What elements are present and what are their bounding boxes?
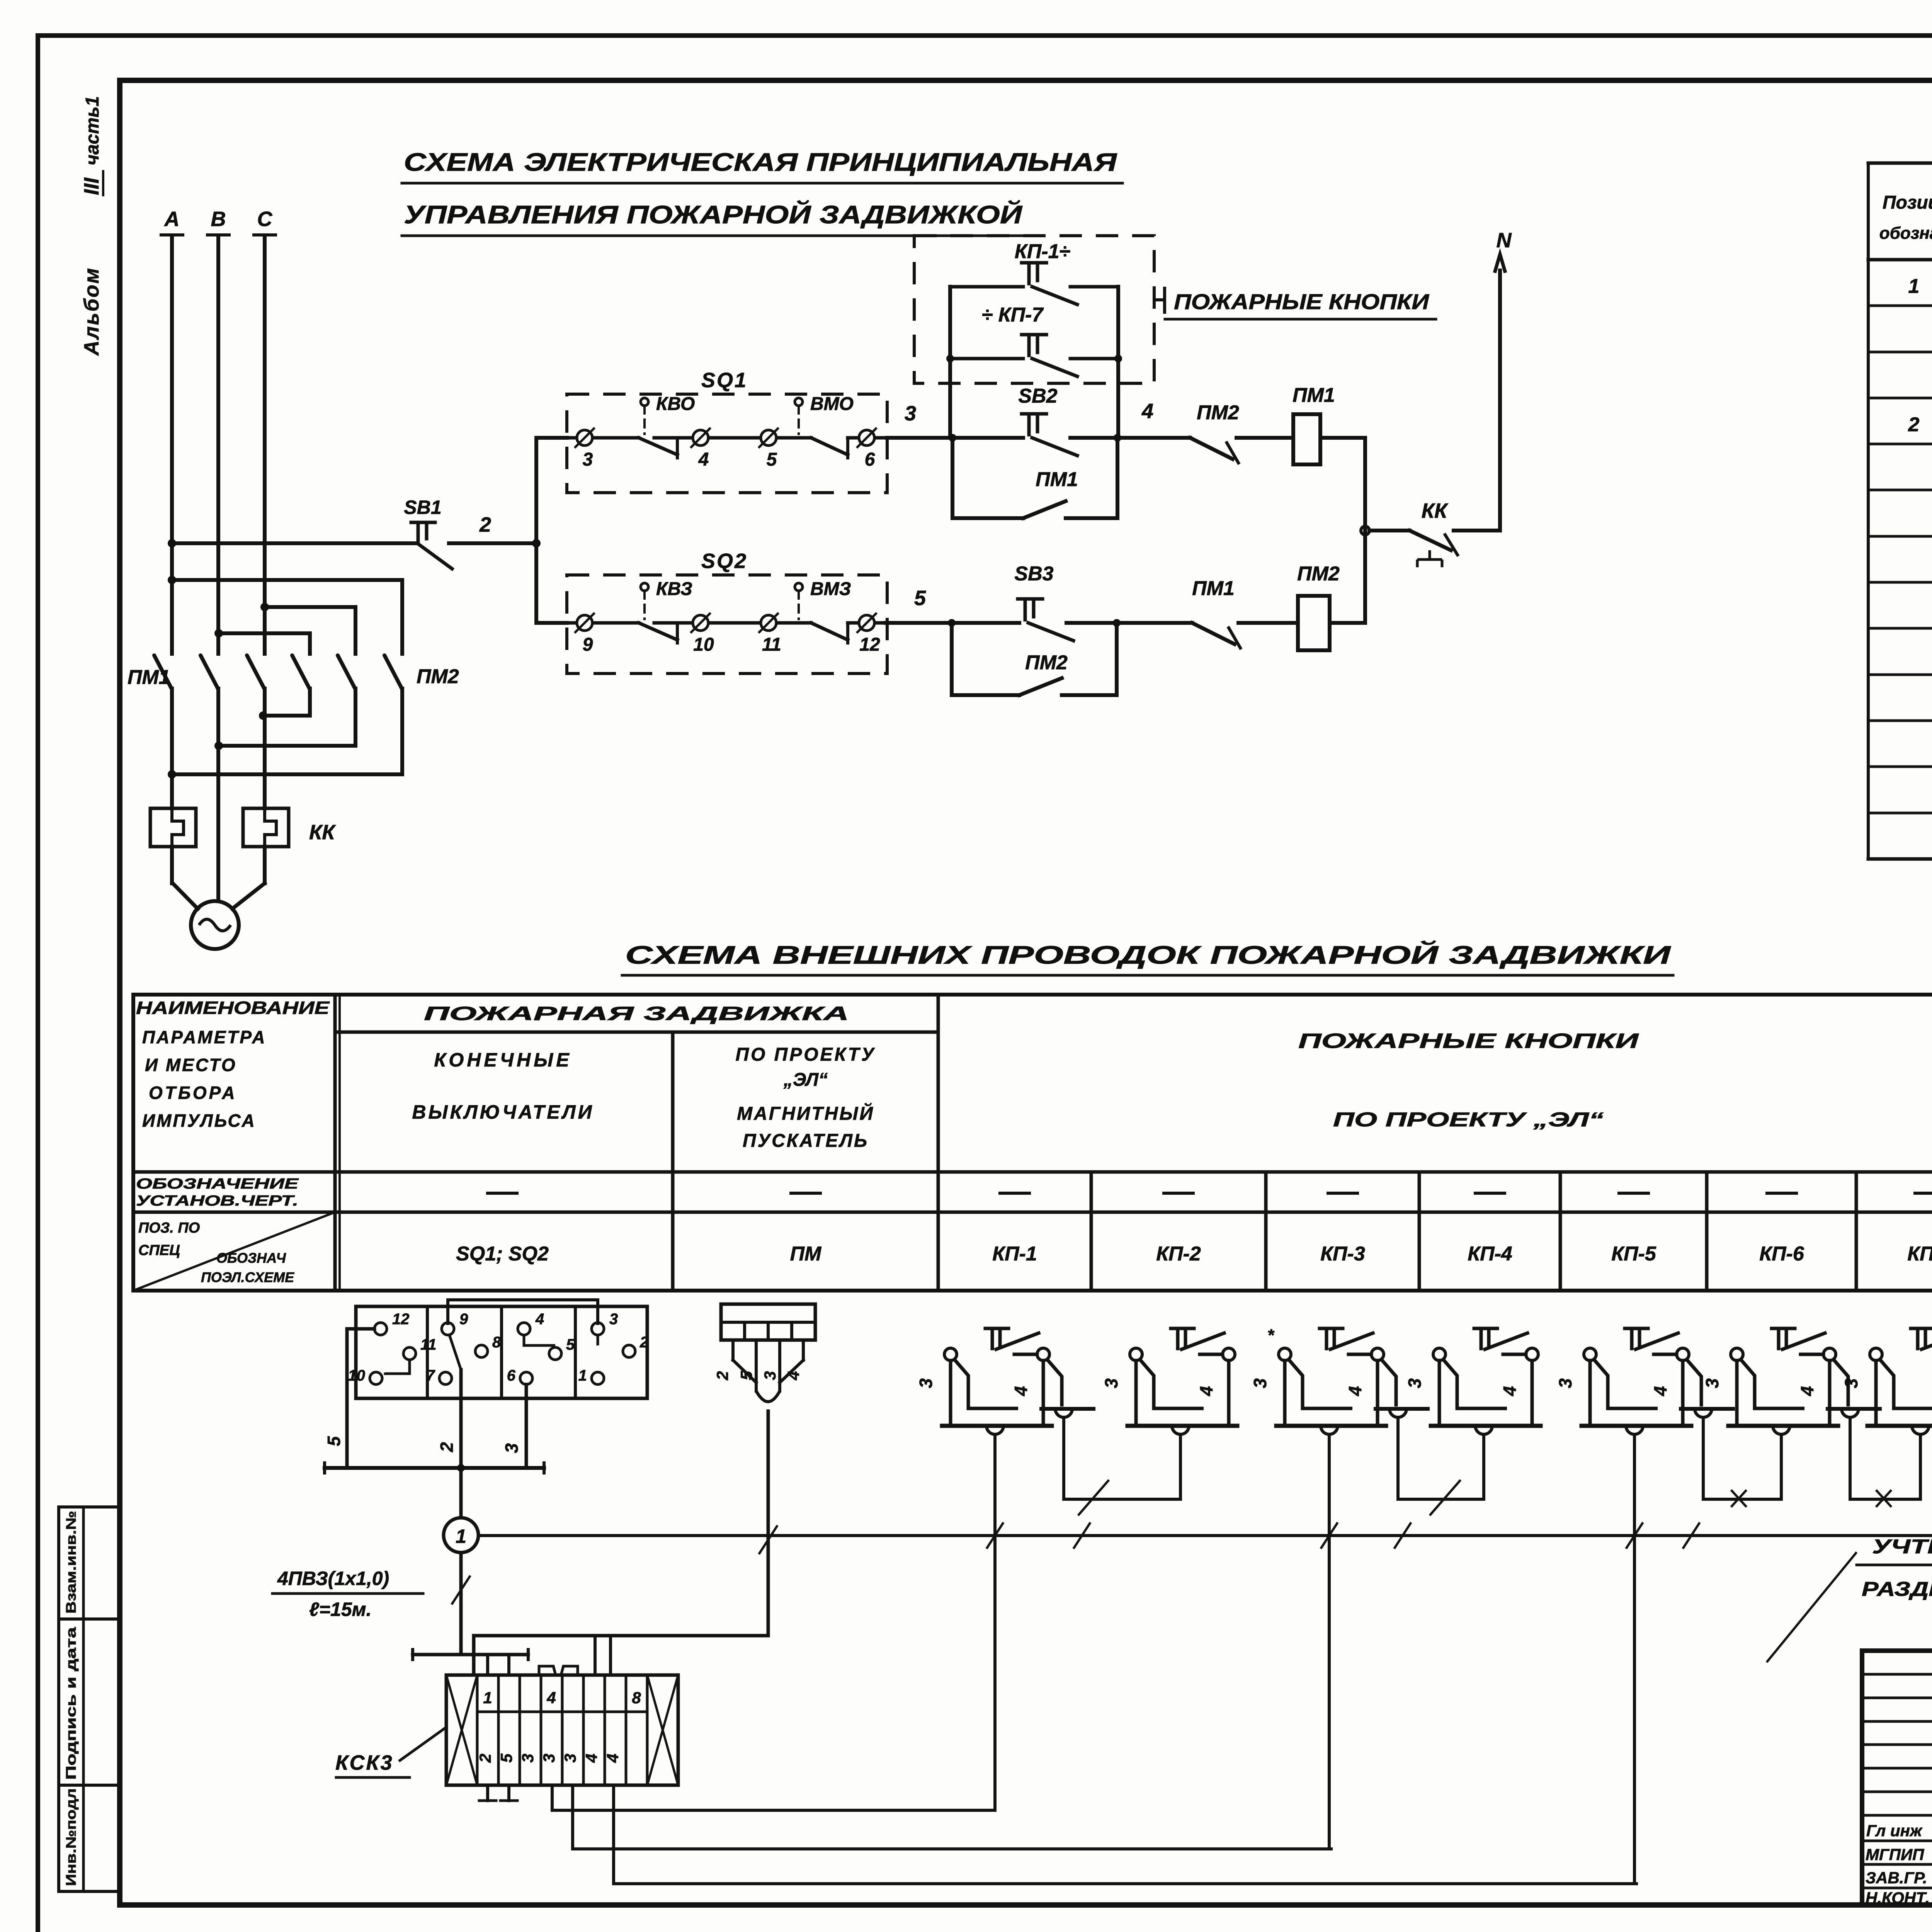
svg-text:ВМО: ВМО — [810, 394, 854, 414]
svg-text:4: 4 — [535, 1311, 544, 1328]
svg-text:9: 9 — [583, 634, 593, 655]
svg-text:4: 4 — [1345, 1386, 1365, 1396]
svg-text:9: 9 — [459, 1311, 468, 1328]
svg-text:КК: КК — [309, 821, 336, 844]
svg-text:Позиц.: Позиц. — [1883, 192, 1932, 213]
svg-text:1: 1 — [456, 1526, 466, 1547]
svg-text:ПОЖАРНЫЕ КНОПКИ: ПОЖАРНЫЕ КНОПКИ — [1174, 289, 1430, 314]
svg-text:УЧТЕНО В: УЧТЕНО В — [1872, 1536, 1932, 1558]
svg-text:3: 3 — [916, 1378, 936, 1388]
svg-text:ПМ1: ПМ1 — [128, 666, 170, 689]
svg-text:ПМ1: ПМ1 — [1036, 468, 1078, 491]
svg-text:КП-1: КП-1 — [992, 1243, 1037, 1265]
svg-text:А: А — [164, 207, 180, 231]
svg-text:SB2: SB2 — [1018, 385, 1057, 407]
svg-text:Инв.№подл: Инв.№подл — [63, 1788, 79, 1886]
svg-text:УСТАНОВ.ЧЕРТ.: УСТАНОВ.ЧЕРТ. — [136, 1193, 298, 1209]
svg-text:3: 3 — [502, 1443, 522, 1453]
svg-text:3: 3 — [1702, 1378, 1722, 1388]
svg-text:2: 2 — [713, 1371, 731, 1380]
svg-text:ВЫКЛЮЧАТЕЛИ: ВЫКЛЮЧАТЕЛИ — [412, 1101, 594, 1123]
svg-text:2: 2 — [476, 1753, 494, 1763]
svg-text:ВМЗ: ВМЗ — [810, 579, 851, 599]
svg-text:5: 5 — [737, 1371, 755, 1380]
svg-text:РАЗДЕЛЕ „ЭЛ“: РАЗДЕЛЕ „ЭЛ“ — [1862, 1578, 1932, 1600]
svg-text:3: 3 — [1101, 1378, 1121, 1388]
svg-text:4: 4 — [1797, 1386, 1817, 1396]
svg-text:SQ1: SQ1 — [701, 369, 748, 392]
svg-text:ЗАВ.ГР.: ЗАВ.ГР. — [1866, 1869, 1927, 1887]
svg-text:Взам.инв.№: Взам.инв.№ — [63, 1511, 79, 1614]
svg-text:Гл инж: Гл инж — [1866, 1821, 1923, 1840]
svg-text:1: 1 — [578, 1367, 587, 1384]
svg-text:КП-3: КП-3 — [1320, 1243, 1365, 1265]
svg-text:СПЕЦ: СПЕЦ — [138, 1242, 180, 1259]
svg-text:КП-4: КП-4 — [1468, 1243, 1512, 1265]
svg-text:SB3: SB3 — [1014, 563, 1053, 585]
svg-text:N: N — [1497, 229, 1512, 252]
svg-text:НАИМЕНОВАНИЕ: НАИМЕНОВАНИЕ — [136, 998, 330, 1018]
svg-text:ПМ2: ПМ2 — [1297, 563, 1340, 585]
svg-text:2: 2 — [1908, 413, 1920, 436]
svg-text:10: 10 — [348, 1367, 366, 1384]
svg-text:Н.КОНТ.: Н.КОНТ. — [1866, 1889, 1930, 1907]
svg-text:3: 3 — [905, 402, 916, 425]
svg-text:КП-7: КП-7 — [1907, 1243, 1932, 1265]
svg-text:12: 12 — [859, 634, 880, 655]
svg-text:4: 4 — [546, 1689, 556, 1707]
svg-text:3: 3 — [761, 1371, 779, 1380]
svg-text:ИМПУЛЬСА: ИМПУЛЬСА — [142, 1111, 256, 1131]
svg-text:3: 3 — [561, 1753, 579, 1762]
svg-text:ОТБОРА: ОТБОРА — [149, 1083, 237, 1103]
svg-text:5: 5 — [497, 1753, 515, 1763]
svg-text:СХЕМА ЭЛЕКТРИЧЕСКАЯ ПРИНЦИПИАЛ: СХЕМА ЭЛЕКТРИЧЕСКАЯ ПРИНЦИПИАЛЬНАЯ — [404, 148, 1117, 176]
svg-text:3: 3 — [1250, 1378, 1270, 1388]
svg-text:3: 3 — [540, 1753, 558, 1762]
svg-text:8: 8 — [492, 1334, 501, 1351]
svg-text:4: 4 — [1500, 1386, 1520, 1396]
svg-text:ПО ПРОЕКТУ „ЭЛ“: ПО ПРОЕКТУ „ЭЛ“ — [1333, 1109, 1604, 1131]
svg-text:5: 5 — [566, 1336, 575, 1353]
svg-text:SQ1; SQ2: SQ1; SQ2 — [456, 1243, 549, 1265]
svg-text:КВО: КВО — [656, 394, 695, 414]
svg-text:3: 3 — [1841, 1378, 1861, 1388]
svg-text:КСК3: КСК3 — [335, 1751, 394, 1774]
svg-text:5: 5 — [324, 1436, 344, 1446]
svg-text:÷ КП-7: ÷ КП-7 — [982, 304, 1044, 326]
svg-text:КК: КК — [1422, 499, 1449, 522]
svg-text:4: 4 — [1141, 400, 1153, 423]
svg-text:ПУСКАТЕЛЬ: ПУСКАТЕЛЬ — [743, 1131, 869, 1151]
svg-text:4: 4 — [1196, 1386, 1216, 1396]
svg-text:Подпись и дата: Подпись и дата — [63, 1627, 79, 1780]
svg-text:ОБОЗНАЧ: ОБОЗНАЧ — [216, 1250, 286, 1266]
svg-text:3: 3 — [519, 1753, 537, 1762]
svg-text:*: * — [1268, 1326, 1275, 1345]
svg-text:5: 5 — [914, 587, 926, 610]
svg-text:11: 11 — [762, 634, 781, 655]
svg-text:„ЭЛ“: „ЭЛ“ — [783, 1070, 828, 1090]
svg-text:ПАРАМЕТРА: ПАРАМЕТРА — [142, 1027, 266, 1047]
svg-text:3: 3 — [1405, 1378, 1425, 1388]
svg-text:КОНЕЧНЫЕ: КОНЕЧНЫЕ — [434, 1049, 572, 1071]
svg-text:В: В — [211, 207, 226, 231]
svg-text:1: 1 — [1908, 275, 1920, 298]
svg-text:4: 4 — [582, 1753, 600, 1763]
svg-text:КВЗ: КВЗ — [656, 579, 692, 599]
svg-text:КП-2: КП-2 — [1156, 1243, 1201, 1265]
svg-text:ПМ1: ПМ1 — [1192, 577, 1235, 600]
svg-text:ПМ2: ПМ2 — [417, 665, 459, 688]
svg-text:ПМ2: ПМ2 — [1025, 651, 1068, 674]
svg-text:7: 7 — [426, 1367, 435, 1384]
svg-text:SB1: SB1 — [404, 497, 441, 518]
svg-text:ПОЖАРНАЯ ЗАДВИЖКА: ПОЖАРНАЯ ЗАДВИЖКА — [424, 1003, 849, 1024]
svg-text:8: 8 — [632, 1689, 641, 1707]
svg-text:И МЕСТО: И МЕСТО — [145, 1055, 237, 1075]
svg-text:МГПИП: МГПИП — [1866, 1845, 1924, 1864]
svg-text:КП-1÷: КП-1÷ — [1015, 240, 1070, 263]
svg-text:ПОЖАРНЫЕ КНОПКИ: ПОЖАРНЫЕ КНОПКИ — [1298, 1029, 1639, 1053]
svg-text:SQ2: SQ2 — [701, 549, 748, 573]
svg-text:МАГНИТНЫЙ: МАГНИТНЫЙ — [737, 1103, 874, 1124]
svg-text:УПРАВЛЕНИЯ ПОЖАРНОЙ ЗАДВИЖКОЙ: УПРАВЛЕНИЯ ПОЖАРНОЙ ЗАДВИЖКОЙ — [404, 200, 1023, 229]
svg-text:3: 3 — [1555, 1378, 1575, 1388]
svg-text:2: 2 — [479, 513, 491, 536]
svg-text:4: 4 — [604, 1753, 622, 1763]
svg-text:ПОЭЛ.СХЕМЕ: ПОЭЛ.СХЕМЕ — [201, 1269, 294, 1285]
svg-text:1: 1 — [483, 1689, 492, 1707]
svg-text:10: 10 — [693, 634, 714, 655]
svg-text:обознач: обознач — [1879, 224, 1932, 243]
svg-text:6: 6 — [507, 1367, 516, 1384]
svg-text:4: 4 — [1650, 1386, 1670, 1396]
svg-text:ПМ: ПМ — [790, 1243, 822, 1265]
svg-text:III: III — [80, 177, 103, 195]
svg-text:5: 5 — [767, 449, 777, 470]
svg-text:3: 3 — [609, 1311, 618, 1328]
svg-text:12: 12 — [392, 1311, 410, 1328]
svg-text:ПМ2: ПМ2 — [1197, 401, 1239, 424]
svg-text:2: 2 — [437, 1442, 457, 1452]
svg-text:ПО ПРОЕКТУ: ПО ПРОЕКТУ — [735, 1044, 876, 1065]
svg-text:ℓ=15м.: ℓ=15м. — [309, 1599, 372, 1620]
svg-text:3: 3 — [583, 449, 593, 470]
svg-text:4: 4 — [784, 1371, 803, 1380]
svg-text:6: 6 — [865, 449, 875, 470]
svg-text:ПМ1: ПМ1 — [1293, 384, 1335, 406]
svg-text:2: 2 — [639, 1334, 648, 1351]
svg-text:Альбом: Альбом — [80, 267, 103, 356]
svg-text:КП-5: КП-5 — [1611, 1243, 1656, 1265]
svg-text:4: 4 — [698, 449, 709, 470]
svg-text:ОБОЗНАЧЕНИЕ: ОБОЗНАЧЕНИЕ — [136, 1176, 299, 1192]
svg-text:4: 4 — [1011, 1386, 1031, 1396]
svg-text:С: С — [257, 207, 273, 231]
svg-text:СХЕМА ВНЕШНИХ ПРОВОДОК ПОЖАРНО: СХЕМА ВНЕШНИХ ПРОВОДОК ПОЖАРНОЙ ЗАДВИЖКИ — [625, 940, 1671, 969]
svg-text:КП-6: КП-6 — [1759, 1243, 1804, 1265]
svg-text:часть1: часть1 — [82, 96, 103, 165]
svg-text:4ПВЗ(1х1,0): 4ПВЗ(1х1,0) — [277, 1568, 389, 1589]
svg-text:11: 11 — [420, 1336, 437, 1353]
svg-text:ПОЗ. ПО: ПОЗ. ПО — [138, 1220, 200, 1236]
